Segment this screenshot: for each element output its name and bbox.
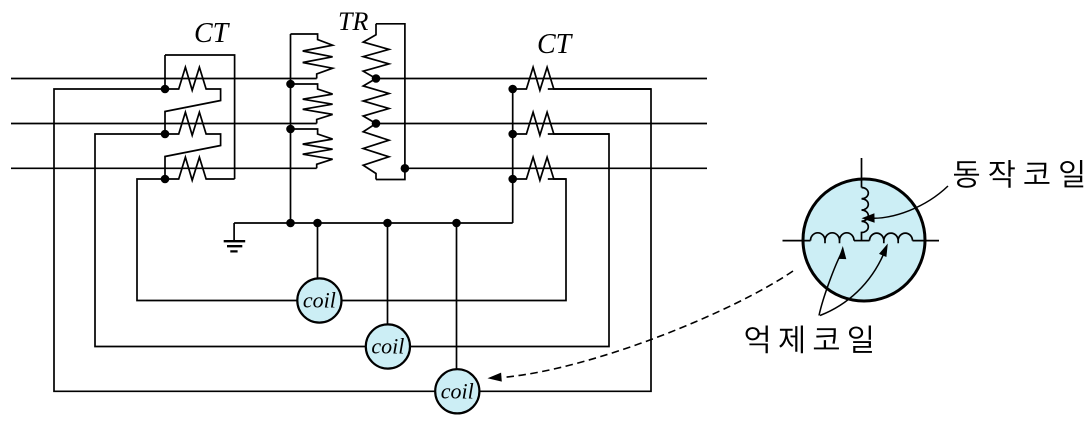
svg-text:coil: coil — [303, 288, 336, 313]
wire CT-left sec 3 to inner loop — [137, 179, 297, 301]
CT right winding 1 (phase a) — [513, 67, 651, 90]
junction CT-left winding1 terminal — [161, 85, 170, 94]
CT left winding 1 (phase A) — [165, 67, 221, 134]
wire inner loop right (to CT-right winding3) — [342, 179, 566, 301]
junction TR secondary tap a — [372, 74, 381, 83]
junction CT-right winding3 terminal — [508, 175, 517, 184]
operating coil (vertical) — [862, 188, 869, 241]
detail vertical lead top — [861, 158, 863, 188]
TR secondary winding middle — [363, 79, 389, 124]
junction TR primary tap 2 — [286, 80, 295, 89]
CT left delta frame top — [165, 55, 235, 179]
TR secondary winding upper — [363, 24, 389, 79]
TR secondary frame — [376, 24, 405, 180]
junction TR secondary tap b — [372, 119, 381, 128]
junction TR secondary tap c — [401, 164, 410, 173]
wire coil3 feeder — [456, 223, 458, 369]
wire CT-left sec 1 to outer loop — [54, 89, 435, 391]
junction CT-right winding2 terminal — [508, 130, 517, 139]
svg-text:TR: TR — [338, 7, 368, 36]
CT left winding 2 (phase B) — [165, 112, 221, 179]
CT right common (vertical) — [512, 89, 514, 223]
coil 3 (operating element, phase A loop) — [435, 369, 479, 413]
svg-text:coil: coil — [441, 378, 474, 403]
relay detail circle — [803, 179, 925, 301]
TR primary winding section 1 — [291, 34, 333, 79]
detail horizontal lead right — [913, 240, 940, 242]
junction bus - coil3 feeder — [452, 219, 461, 228]
TR secondary winding lower — [363, 124, 389, 180]
wire outer loop right (to CT-right winding1) — [479, 89, 651, 391]
wire phase b (right, middle) — [376, 123, 707, 125]
restraint coil right — [870, 233, 913, 243]
wire neutral bus — [234, 222, 513, 224]
wire middle loop right (to CT-right winding2) — [410, 134, 609, 347]
leader arrow to operating coil — [874, 186, 948, 218]
svg-text:CT: CT — [194, 18, 231, 49]
leader arrow to right restraint coil — [820, 252, 885, 316]
label eokje-coil (restraint coil) — [746, 325, 872, 353]
wire CT-left sec 2 to middle loop — [95, 134, 366, 347]
junction bus - coil1 feeder — [313, 219, 322, 228]
junction CT-left winding3 terminal — [161, 175, 170, 184]
CT right winding 2 (phase b) — [513, 112, 609, 135]
wire phase A (left, top) — [11, 78, 317, 80]
coil 1 (operating element, phase C loop) — [297, 278, 341, 322]
wire phase B (left, middle) — [11, 123, 317, 125]
TR primary bus (vertical) — [290, 34, 292, 223]
CT left winding 3 (phase C) — [165, 157, 235, 180]
label dongjak-coil (operating coil) — [954, 160, 1083, 188]
junction CT-left winding2 terminal — [161, 130, 170, 139]
wire coil1 feeder — [317, 223, 319, 279]
detail horizontal lead middle — [854, 240, 870, 242]
wire phase a (right, top) — [376, 78, 707, 80]
TR primary winding section 2 — [291, 84, 333, 124]
leader arrow to left restraint coil — [819, 253, 842, 316]
junction CT-right winding1 terminal — [508, 85, 517, 94]
svg-text:CT: CT — [537, 29, 574, 60]
wire phase c (right, bottom) — [405, 167, 707, 169]
coil 2 (operating element, phase B loop) — [366, 324, 410, 368]
CT right winding 3 (phase c) — [513, 157, 566, 180]
ground symbol — [224, 241, 246, 251]
svg-text:coil: coil — [371, 334, 404, 359]
wire coil2 feeder — [387, 223, 389, 325]
wire ground stub — [233, 223, 235, 241]
dashed reference arrow (detail to coil 3) — [504, 271, 793, 377]
junction bus - coil2 feeder — [383, 219, 392, 228]
CT left frame left stub — [164, 55, 166, 89]
wire phase C (left, bottom) — [11, 167, 317, 169]
junction bus - TR primary — [286, 219, 295, 228]
junction TR primary tap 3 — [286, 125, 295, 134]
detail horizontal lead left — [783, 240, 811, 242]
TR primary winding section 3 — [291, 129, 333, 168]
restraint coil left — [811, 233, 855, 243]
